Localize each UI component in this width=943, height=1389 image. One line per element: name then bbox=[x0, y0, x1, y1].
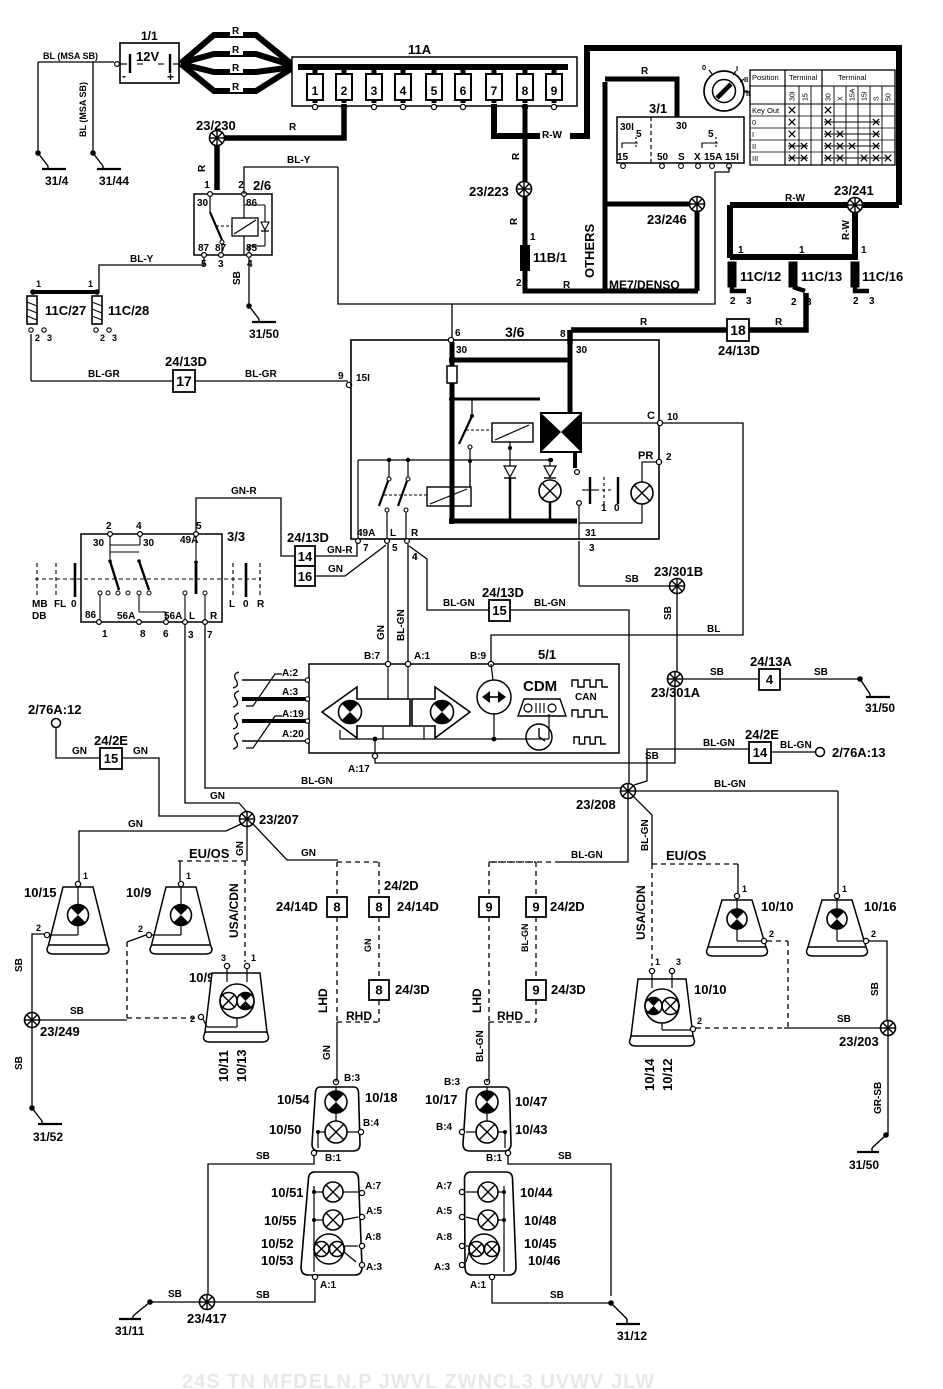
flasher unit 3/6 box bbox=[351, 324, 659, 539]
svg-text:R: R bbox=[210, 611, 218, 622]
svg-text:14: 14 bbox=[298, 549, 313, 564]
svg-text:8: 8 bbox=[140, 629, 146, 640]
svg-text:GN-R: GN-R bbox=[327, 545, 353, 556]
svg-text:10/13: 10/13 bbox=[234, 1049, 249, 1082]
connector 2/76A:12 bbox=[28, 702, 81, 728]
svg-text:23/207: 23/207 bbox=[259, 812, 299, 827]
svg-text:SB: SB bbox=[837, 1014, 851, 1025]
svg-text:8: 8 bbox=[522, 84, 529, 98]
svg-text:MB: MB bbox=[32, 599, 48, 610]
svg-text:3: 3 bbox=[746, 296, 752, 307]
svg-text:0: 0 bbox=[752, 118, 756, 127]
ground 31/52 bbox=[29, 1105, 63, 1144]
junction 23/301A bbox=[651, 672, 701, 701]
svg-text:1: 1 bbox=[102, 629, 108, 640]
svg-text:USA/CDN: USA/CDN bbox=[227, 883, 241, 938]
svg-text:24/14D: 24/14D bbox=[397, 899, 439, 914]
svg-text:2: 2 bbox=[36, 923, 41, 933]
wire BL-GN 23/208 down to RHD 9 column bbox=[489, 798, 628, 862]
wire SB 23/249 to ground 31/52 bbox=[14, 1028, 32, 1108]
svg-text:SB: SB bbox=[710, 667, 724, 678]
svg-text:24/3D: 24/3D bbox=[395, 982, 430, 997]
CDM terminal A:17 bbox=[348, 753, 378, 775]
svg-text:31/11: 31/11 bbox=[115, 1324, 145, 1338]
svg-text:7: 7 bbox=[363, 543, 369, 554]
svg-text:24/14D: 24/14D bbox=[276, 899, 318, 914]
svg-text:GN: GN bbox=[133, 746, 148, 757]
svg-text:B:1: B:1 bbox=[325, 1153, 342, 1164]
svg-text:9: 9 bbox=[338, 371, 344, 382]
key position table bbox=[750, 70, 895, 165]
turn signal switch 3/3 bbox=[32, 521, 265, 641]
svg-text:49A: 49A bbox=[357, 528, 375, 539]
wire SB lamp 10/16 pin 2 to junction 23/203 bbox=[869, 941, 887, 1021]
svg-text:A:3: A:3 bbox=[434, 1262, 451, 1273]
wire GN 23/207 to lamp 10/15 bbox=[79, 819, 241, 881]
svg-text:15: 15 bbox=[492, 603, 506, 618]
svg-text:III: III bbox=[752, 154, 758, 163]
svg-text:BL (MSA SB): BL (MSA SB) bbox=[43, 51, 98, 61]
svg-text:1: 1 bbox=[186, 871, 191, 881]
svg-text:10/17: 10/17 bbox=[425, 1092, 458, 1107]
svg-text:R: R bbox=[232, 45, 240, 56]
svg-text:3: 3 bbox=[221, 953, 226, 963]
svg-text:30: 30 bbox=[143, 538, 155, 549]
wire SB 23/249 to dashed node bbox=[40, 1006, 127, 1020]
svg-text:L: L bbox=[229, 599, 235, 610]
CDM inputs A:2 A:3 A:19 A:20 bbox=[233, 668, 310, 749]
in-line connector 14 24/2E bbox=[745, 727, 779, 763]
svg-text:1: 1 bbox=[83, 871, 88, 881]
svg-text:30: 30 bbox=[576, 345, 588, 356]
svg-text:BL-Y: BL-Y bbox=[130, 254, 154, 265]
svg-text:A:19: A:19 bbox=[282, 709, 304, 720]
svg-text:14: 14 bbox=[753, 745, 768, 760]
ignition key cylinder symbol bbox=[702, 63, 752, 111]
wire R fuse 2 to junction 23/230 and relay 2/6 pin 1 bbox=[197, 104, 344, 190]
wire GN flasher L to CDM B:7 bbox=[376, 544, 388, 662]
svg-text:12V: 12V bbox=[136, 49, 159, 64]
svg-text:10/12: 10/12 bbox=[660, 1058, 675, 1091]
svg-text:2: 2 bbox=[238, 180, 244, 191]
svg-text:3: 3 bbox=[676, 957, 681, 967]
svg-text:15I: 15I bbox=[725, 152, 739, 163]
svg-text:A:8: A:8 bbox=[365, 1232, 382, 1243]
rear lamp cluster left lower 10/51 10/55 10/52 10/53 bbox=[261, 1172, 383, 1291]
svg-text:24/2E: 24/2E bbox=[94, 733, 128, 748]
svg-text:10/43: 10/43 bbox=[515, 1122, 548, 1137]
connector column 9 LHD/RHD bbox=[397, 862, 586, 1023]
svg-text:BL-GN: BL-GN bbox=[475, 1030, 486, 1062]
svg-text:86: 86 bbox=[85, 610, 97, 621]
wire BL-Y drop to flasher 3/6 pin 6 bbox=[451, 304, 453, 340]
svg-text:B:1: B:1 bbox=[486, 1153, 503, 1164]
in-line connector 15 24/13D bbox=[482, 585, 524, 621]
svg-text:2: 2 bbox=[138, 924, 143, 934]
svg-text:16: 16 bbox=[298, 569, 312, 584]
wire BL-GN flasher R to CDM A:1 bbox=[396, 544, 408, 662]
connector 11C/12 bbox=[728, 245, 781, 307]
svg-text:X: X bbox=[694, 152, 701, 163]
svg-text:R: R bbox=[509, 217, 520, 225]
connector 11B/1 bbox=[516, 232, 605, 291]
svg-text:ME7/DENSO: ME7/DENSO bbox=[609, 278, 680, 292]
svg-text:R: R bbox=[289, 122, 297, 133]
svg-text:A:1: A:1 bbox=[414, 651, 431, 662]
svg-text:SB: SB bbox=[168, 1289, 182, 1300]
svg-text:9: 9 bbox=[532, 983, 539, 998]
svg-text:1: 1 bbox=[312, 84, 319, 98]
svg-text:R: R bbox=[197, 164, 208, 172]
wire OTHERS vertical with branch to ignition switch 3/1 bbox=[582, 66, 677, 291]
wire SB right cluster B:1 to ground node bbox=[508, 1151, 611, 1296]
svg-text:BL-GN: BL-GN bbox=[714, 779, 746, 790]
svg-text:A:8: A:8 bbox=[436, 1232, 453, 1243]
svg-text:GN: GN bbox=[72, 746, 87, 757]
svg-text:BL-GN: BL-GN bbox=[571, 850, 603, 861]
svg-text:15A: 15A bbox=[704, 152, 722, 163]
svg-text:SB: SB bbox=[663, 606, 674, 620]
svg-text:24/2D: 24/2D bbox=[384, 878, 419, 893]
svg-text:18: 18 bbox=[730, 322, 746, 338]
svg-text:15: 15 bbox=[104, 751, 118, 766]
svg-text:11C/16: 11C/16 bbox=[862, 269, 903, 284]
svg-text:SB: SB bbox=[870, 982, 881, 996]
svg-text:10/45: 10/45 bbox=[524, 1236, 557, 1251]
dashed EU/OS marker right bbox=[652, 848, 738, 864]
wire GN into left cluster B:3 bbox=[335, 1080, 337, 1082]
svg-text:BL: BL bbox=[707, 624, 720, 635]
svg-text:CAN: CAN bbox=[575, 692, 597, 703]
svg-text:2: 2 bbox=[666, 452, 672, 463]
svg-text:15: 15 bbox=[803, 93, 810, 101]
flasher C output terminal bbox=[581, 410, 679, 426]
wire BL-Y relay 2/6 pin 2 to ignition 15I bbox=[244, 155, 729, 304]
wire GR-SB 23/203 to ground 31/50 bbox=[873, 1036, 888, 1135]
svg-text:3: 3 bbox=[112, 333, 117, 343]
svg-text:7: 7 bbox=[491, 84, 498, 98]
wire lamp 10/9 pin 1 drop bbox=[179, 861, 181, 881]
CDM terminal B:9 bbox=[470, 651, 494, 667]
svg-text:50: 50 bbox=[886, 93, 893, 101]
junction 23/208 bbox=[576, 784, 636, 813]
CDM terminal B:7 bbox=[364, 651, 391, 667]
svg-text:Key Out: Key Out bbox=[752, 106, 780, 115]
svg-text:R: R bbox=[411, 528, 419, 539]
svg-text:C: C bbox=[647, 410, 655, 422]
svg-text:24/13D: 24/13D bbox=[287, 530, 329, 545]
svg-text:0: 0 bbox=[702, 63, 706, 72]
svg-text:10/55: 10/55 bbox=[264, 1213, 297, 1228]
svg-text:L: L bbox=[390, 528, 396, 539]
svg-text:6: 6 bbox=[460, 84, 467, 98]
wire GN 23/207 to LHD connector 8 column bbox=[253, 824, 338, 860]
svg-text:86: 86 bbox=[246, 198, 258, 209]
wire BL-GN into right cluster B:3 bbox=[486, 1080, 488, 1082]
in-line connectors 14 16 24/13D bbox=[287, 530, 329, 586]
svg-text:BL-GN: BL-GN bbox=[396, 609, 407, 641]
junction 23/230 bbox=[196, 118, 236, 146]
svg-text:SB: SB bbox=[558, 1151, 572, 1162]
svg-text:A:2: A:2 bbox=[282, 668, 299, 679]
labels 10/11 10/13 bbox=[216, 1049, 249, 1082]
svg-text:11C/13: 11C/13 bbox=[801, 269, 842, 284]
svg-text:24/13D: 24/13D bbox=[718, 343, 760, 358]
ignition switch 3/1 bbox=[617, 101, 744, 168]
svg-text:GN: GN bbox=[301, 848, 316, 859]
svg-text:2: 2 bbox=[190, 1014, 195, 1024]
svg-text:R: R bbox=[511, 152, 522, 160]
svg-text:23/301A: 23/301A bbox=[651, 685, 701, 700]
control module CDM 5/1 box bbox=[309, 647, 619, 753]
svg-text:A:1: A:1 bbox=[470, 1280, 487, 1291]
svg-text:30: 30 bbox=[197, 198, 209, 209]
flasher relay coil inside 3/6 bbox=[492, 423, 533, 519]
dashed USA/CDN wire right bbox=[634, 864, 652, 966]
svg-text:3: 3 bbox=[218, 259, 224, 270]
svg-text:24/13A: 24/13A bbox=[750, 654, 793, 669]
svg-text:Terminal: Terminal bbox=[789, 73, 818, 82]
svg-text:A:3: A:3 bbox=[366, 1262, 383, 1273]
ground 31/4 bbox=[35, 150, 68, 188]
svg-text:30: 30 bbox=[93, 538, 105, 549]
svg-text:30: 30 bbox=[676, 121, 688, 132]
svg-text:15A: 15A bbox=[850, 88, 857, 101]
svg-text:USA/CDN: USA/CDN bbox=[634, 885, 648, 940]
svg-text:0: 0 bbox=[614, 503, 620, 514]
wire SB 23/417 to ground 31/11 bbox=[115, 1289, 199, 1338]
svg-text:10/10: 10/10 bbox=[761, 899, 794, 914]
svg-text:8: 8 bbox=[333, 900, 340, 915]
svg-text:2: 2 bbox=[100, 333, 105, 343]
wire R fuse 8 down to 11B/1 bbox=[509, 104, 525, 245]
svg-text:B:9: B:9 bbox=[470, 651, 487, 662]
connector 11C/13 bbox=[789, 245, 842, 308]
turn lamp 10/9 upper bbox=[126, 871, 212, 954]
svg-text:EU/OS: EU/OS bbox=[666, 848, 707, 863]
svg-text:5: 5 bbox=[636, 129, 642, 140]
connector 11C/27 bbox=[27, 296, 86, 343]
svg-text:30I: 30I bbox=[620, 122, 634, 133]
svg-text:SB: SB bbox=[14, 958, 25, 972]
svg-text:30: 30 bbox=[456, 345, 468, 356]
ground 31/50 upper bbox=[246, 303, 279, 341]
svg-text:I: I bbox=[736, 64, 738, 73]
svg-text:L: L bbox=[189, 611, 195, 622]
connector column 8 LHD/RHD bbox=[276, 862, 430, 1023]
svg-text:15I: 15I bbox=[862, 91, 869, 101]
wire BL-GR 11C/27 to in-line connector 17 to flasher 15I bbox=[31, 334, 370, 388]
ground 31/50 lower right bbox=[849, 1132, 889, 1172]
svg-text:10/44: 10/44 bbox=[520, 1185, 553, 1200]
svg-text:1: 1 bbox=[530, 232, 536, 243]
hazard indicator bowtie symbol bbox=[541, 413, 581, 474]
svg-text:GR-SB: GR-SB bbox=[873, 1082, 884, 1114]
svg-text:56A: 56A bbox=[117, 611, 135, 622]
CDM clock symbol bbox=[526, 724, 552, 750]
svg-text:2: 2 bbox=[791, 297, 797, 308]
svg-text:31/50: 31/50 bbox=[849, 1158, 879, 1172]
svg-text:10/14: 10/14 bbox=[642, 1058, 657, 1091]
svg-text:-: - bbox=[122, 69, 126, 83]
svg-text:LHD: LHD bbox=[470, 988, 484, 1013]
svg-text:5: 5 bbox=[431, 84, 438, 98]
wire BL-GN connector 15 to junction 23/208 bbox=[510, 598, 629, 783]
wire SB CDM A:17 to junction 23/301A bbox=[375, 687, 675, 763]
svg-text:2/76A:13: 2/76A:13 bbox=[832, 745, 885, 760]
svg-text:A:7: A:7 bbox=[365, 1181, 382, 1192]
svg-text:A:5: A:5 bbox=[366, 1206, 383, 1217]
svg-text:BL-GN: BL-GN bbox=[534, 598, 566, 609]
svg-text:BL-GN: BL-GN bbox=[703, 738, 735, 749]
svg-text:II: II bbox=[744, 75, 748, 84]
svg-text:2: 2 bbox=[106, 521, 112, 532]
ground 31/44 bbox=[90, 150, 129, 188]
svg-text:1: 1 bbox=[88, 279, 93, 289]
svg-text:5/1: 5/1 bbox=[538, 647, 556, 662]
connector 11C/28 bbox=[92, 296, 149, 343]
wire SB right cluster A:1 to ground 31/12 bbox=[492, 1280, 647, 1343]
svg-text:31: 31 bbox=[585, 528, 597, 539]
svg-text:31/50: 31/50 bbox=[249, 327, 279, 341]
flasher relay contact inside 3/6 bbox=[449, 399, 540, 449]
svg-text:R: R bbox=[232, 26, 240, 37]
svg-text:2: 2 bbox=[697, 1016, 702, 1026]
svg-text:CDM: CDM bbox=[523, 678, 557, 695]
svg-text:SB: SB bbox=[232, 271, 243, 285]
wire R-W fuse 7 up right side of frame bbox=[494, 48, 899, 205]
svg-text:OTHERS: OTHERS bbox=[582, 224, 597, 279]
dashed wire lamp 10/9 pin 2 to USA/CDN lamp bbox=[127, 935, 197, 1018]
svg-text:24/2D: 24/2D bbox=[550, 899, 585, 914]
svg-text:B:7: B:7 bbox=[364, 651, 381, 662]
svg-text:2: 2 bbox=[35, 333, 40, 343]
svg-text:5: 5 bbox=[708, 129, 714, 140]
svg-text:3: 3 bbox=[188, 630, 194, 641]
svg-text:8: 8 bbox=[375, 983, 382, 998]
svg-text:10/50: 10/50 bbox=[269, 1122, 302, 1137]
svg-text:10/16: 10/16 bbox=[864, 899, 897, 914]
svg-text:24/3D: 24/3D bbox=[551, 982, 586, 997]
indicator lamp inside 3/6 with diode bbox=[539, 458, 561, 519]
wire GN connector 16 to flasher L bbox=[315, 545, 386, 576]
svg-text:24/13D: 24/13D bbox=[482, 585, 524, 600]
svg-text:11A: 11A bbox=[408, 42, 432, 57]
svg-text:Position: Position bbox=[752, 73, 779, 82]
svg-text:11B/1: 11B/1 bbox=[533, 250, 567, 265]
svg-text:SB: SB bbox=[256, 1151, 270, 1162]
svg-text:31/44: 31/44 bbox=[99, 174, 129, 188]
svg-text:B:4: B:4 bbox=[436, 1122, 453, 1133]
wire SB 23/301A to connector 4 and ground 31/50 bbox=[683, 667, 859, 679]
turn lamp 10/16 bbox=[807, 884, 897, 956]
svg-text:1: 1 bbox=[204, 180, 210, 191]
svg-text:31/12: 31/12 bbox=[617, 1329, 647, 1343]
CDM label bbox=[523, 678, 557, 695]
in-line connector 17 24/13D bbox=[165, 354, 207, 392]
in-line connector 18 24/13D bbox=[718, 319, 760, 358]
svg-text:0: 0 bbox=[243, 599, 249, 610]
wire SB flasher 31 to junction 23/301B bbox=[579, 541, 669, 586]
svg-text:GN: GN bbox=[363, 939, 373, 953]
svg-text:R-W: R-W bbox=[542, 130, 563, 141]
svg-text:2/6: 2/6 bbox=[253, 178, 271, 193]
svg-text:A:5: A:5 bbox=[436, 1206, 453, 1217]
svg-text:9: 9 bbox=[485, 900, 492, 915]
svg-text:23/241: 23/241 bbox=[834, 183, 874, 198]
svg-text:BL-GN: BL-GN bbox=[520, 924, 530, 953]
svg-text:4: 4 bbox=[136, 521, 142, 532]
svg-text:DB: DB bbox=[32, 611, 46, 622]
rear lamp cluster right lower 10/44 10/48 10/45 10/46 bbox=[434, 1172, 561, 1291]
wire SB left cluster A:1 to 23/417 bbox=[215, 1280, 315, 1302]
wire BL-GN column 9 to lamp cluster right bbox=[475, 1022, 489, 1080]
svg-text:1: 1 bbox=[799, 245, 805, 256]
svg-text:23/208: 23/208 bbox=[576, 797, 616, 812]
wire SB lamp 10/15 to junction 23/249 bbox=[14, 934, 44, 1012]
svg-text:BL (MSA SB): BL (MSA SB) bbox=[78, 82, 88, 137]
svg-text:24/2E: 24/2E bbox=[745, 727, 779, 742]
wire SB relay 2/6 pin 4 to ground 31/50 bbox=[232, 258, 249, 306]
flasher 31 terminal bbox=[577, 501, 597, 554]
svg-text:2: 2 bbox=[516, 278, 522, 289]
caption faint bottom bbox=[182, 1371, 655, 1389]
svg-text:GN: GN bbox=[235, 841, 246, 856]
svg-text:31/52: 31/52 bbox=[33, 1130, 63, 1144]
svg-text:5: 5 bbox=[196, 521, 202, 532]
svg-text:R-W: R-W bbox=[785, 193, 806, 204]
CDM CAN block bbox=[572, 680, 608, 744]
wire SB 23/301B to 23/301A bbox=[663, 594, 677, 671]
wire BL flasher C to CDM B:9 bbox=[491, 423, 743, 662]
terminals 49A L R below 3/6 bbox=[356, 528, 419, 563]
svg-text:R: R bbox=[232, 82, 240, 93]
svg-text:10/51: 10/51 bbox=[271, 1185, 304, 1200]
svg-text:1: 1 bbox=[861, 245, 867, 256]
svg-text:I: I bbox=[752, 130, 754, 139]
svg-text:R: R bbox=[775, 317, 783, 328]
svg-text:R: R bbox=[563, 280, 571, 291]
in-line connector 15 24/2E bbox=[94, 733, 128, 769]
svg-text:GN-R: GN-R bbox=[231, 486, 257, 497]
turn switch relay coil inside 3/6 bbox=[427, 463, 471, 506]
wire BL-GN 23/208 to USA/CDN node right bbox=[633, 796, 652, 864]
svg-text:Terminal: Terminal bbox=[838, 73, 867, 82]
svg-text:GN: GN bbox=[328, 564, 343, 575]
svg-text:10/54: 10/54 bbox=[277, 1092, 310, 1107]
svg-text:2: 2 bbox=[853, 296, 859, 307]
svg-text:GN: GN bbox=[128, 819, 143, 830]
svg-text:50: 50 bbox=[657, 152, 669, 163]
svg-text:6: 6 bbox=[455, 328, 461, 339]
wire 30 bus inside 3/6 bbox=[447, 342, 577, 524]
svg-text:R-W: R-W bbox=[841, 219, 852, 240]
svg-text:15: 15 bbox=[617, 152, 629, 163]
wire 49A bus inside 3/6 with switch contacts bbox=[358, 458, 553, 539]
svg-text:7: 7 bbox=[207, 630, 213, 641]
svg-text:10/9: 10/9 bbox=[126, 885, 151, 900]
dashed EU/OS marker left bbox=[178, 846, 247, 861]
junction 23/203 bbox=[839, 1021, 896, 1050]
svg-text:BL-Y: BL-Y bbox=[287, 155, 311, 166]
svg-text:23/301B: 23/301B bbox=[654, 564, 703, 579]
connector 11C/16 bbox=[851, 245, 903, 307]
wire SB left cluster B:1 to 23/417 bbox=[208, 1151, 314, 1294]
CDM vehicle icon bbox=[518, 699, 566, 716]
svg-text:1: 1 bbox=[842, 884, 847, 894]
dashed USA/CDN wire left bbox=[227, 861, 245, 962]
turn lamp 10/15 bbox=[24, 871, 109, 954]
